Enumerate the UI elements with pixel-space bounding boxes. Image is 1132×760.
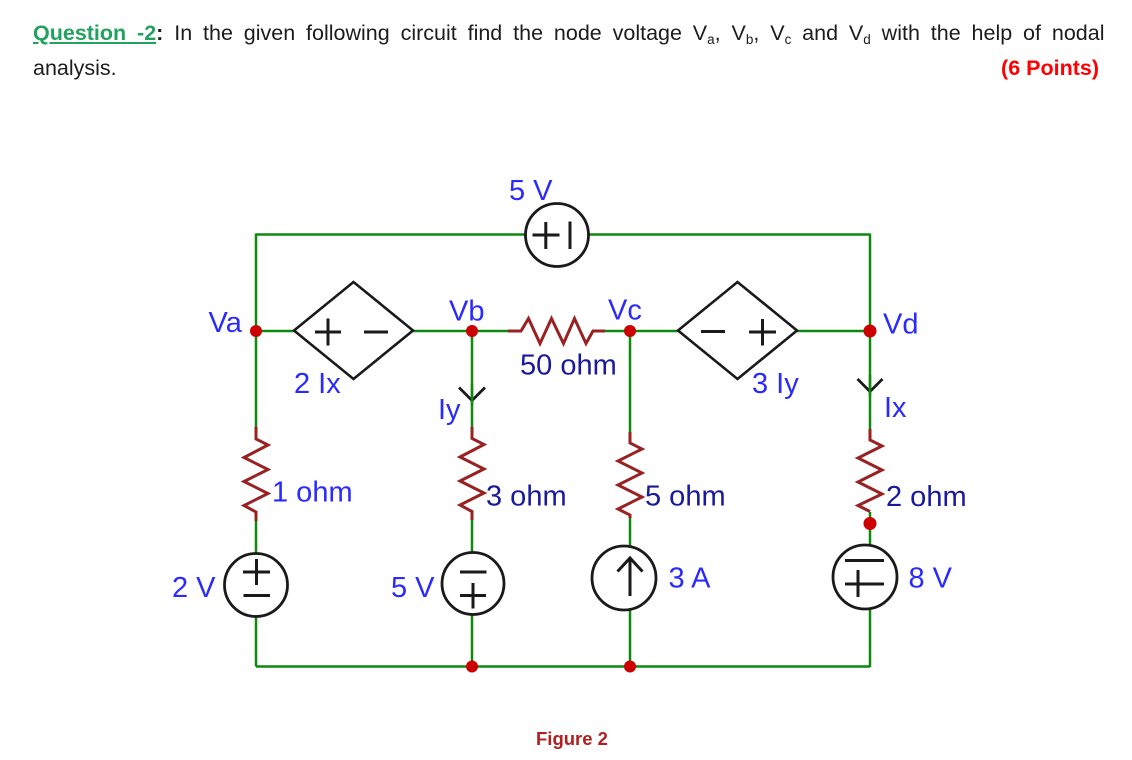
svg-text:5 V: 5 V: [391, 572, 435, 604]
wire: main bus 3Iy source to node Vd: [796, 330, 870, 333]
svg-text:2 ohm: 2 ohm: [886, 481, 967, 513]
svg-text:8 V: 8 V: [909, 563, 953, 595]
node Vc (junction dot): [624, 325, 636, 337]
wire: column4 8V source to bottom bus corner: [869, 608, 872, 667]
node Vd (junction dot): [864, 325, 877, 338]
wire: column2 5V source to bottom bus junction: [471, 611, 474, 667]
svg-text:Vd: Vd: [883, 309, 918, 341]
wire: column2 node Vb down to 3ohm resistor: [471, 331, 474, 428]
wire: column3 5ohm resistor to 3A source: [629, 518, 632, 548]
resistor 5 ohm (column 3): [618, 432, 642, 518]
svg-text:5 ohm: 5 ohm: [645, 481, 726, 513]
voltage source 8V (column 4): [833, 545, 897, 609]
wire: top bus right segment: [579, 233, 870, 236]
wire: column3 3A source to bottom bus junction: [629, 608, 632, 667]
svg-text:3 Iy: 3 Iy: [752, 368, 799, 400]
wire: main bus 50ohm resistor to node Vc and 3Iy source: [604, 330, 679, 333]
svg-text:1 ohm: 1 ohm: [272, 477, 353, 509]
resistor 2 ohm (column 4): [858, 429, 882, 512]
svg-text:Iy: Iy: [438, 394, 461, 426]
wire: left vertical resistor to 2V source: [255, 521, 258, 556]
svg-text:Vb: Vb: [449, 296, 484, 328]
wire: column3 node Vc down to 5ohm resistor: [629, 331, 632, 433]
wire: main bus Va to dependent source 2Ix: [256, 330, 295, 333]
resistor 3 ohm (column 2): [460, 427, 484, 520]
node Va (junction dot): [250, 325, 262, 337]
wire: left vertical 2V source to bottom bus: [255, 608, 258, 667]
resistor 1 ohm (left column): [244, 427, 268, 521]
Figure caption: [536, 728, 608, 750]
wire: left vertical from top corner through node Va to resistor: [255, 234, 258, 429]
svg-text:3 A: 3 A: [669, 563, 712, 595]
current source 3A (column 3): [592, 546, 656, 610]
current arrow Iy (chevron on column 2 wire): [459, 388, 485, 401]
wire: main bus 2Ix source to node Vb and 50ohm resistor: [412, 330, 509, 333]
svg-text:Vc: Vc: [608, 295, 642, 327]
svg-text:Va: Va: [209, 307, 243, 339]
resistor 50 ohm (horizontal): [508, 319, 605, 344]
voltage source 5V (column 2): [442, 553, 504, 615]
wire: column4 node Vd down to 2ohm resistor: [869, 331, 872, 430]
svg-text:3 ohm: 3 ohm: [486, 481, 567, 513]
wire: bottom bus: [256, 665, 870, 668]
voltage source 5V (top): [526, 204, 589, 267]
junction dot column 4 below 2ohm resistor: [864, 517, 877, 530]
wire: column 4 over chevron Ix: [869, 375, 872, 396]
wire: column 2 over chevron Iy: [471, 384, 474, 405]
junction dot bottom bus column 2: [466, 661, 478, 673]
junction dot bottom bus column 3: [624, 661, 636, 673]
dependent source 3Iy (diamond - +): [678, 282, 797, 379]
wire: column4 2ohm resistor through junction to 8V source: [869, 512, 872, 547]
svg-text:5 V: 5 V: [509, 175, 553, 207]
wire: column2 3ohm resistor to 5V source: [471, 520, 474, 555]
svg-text:2 V: 2 V: [172, 572, 216, 604]
svg-text:50 ohm: 50 ohm: [520, 350, 617, 382]
current arrow Ix (chevron on column 4 wire): [858, 379, 883, 392]
voltage source 2V (left column): [225, 554, 288, 617]
node Vb (junction dot): [466, 325, 478, 337]
dependent source 2Ix (diamond + -): [294, 282, 413, 379]
wire: column4 top bus down to node Vd: [869, 234, 872, 332]
svg-text:2 Ix: 2 Ix: [294, 368, 341, 400]
wire: top bus left segment: [256, 233, 527, 236]
svg-text:Ix: Ix: [884, 392, 907, 424]
